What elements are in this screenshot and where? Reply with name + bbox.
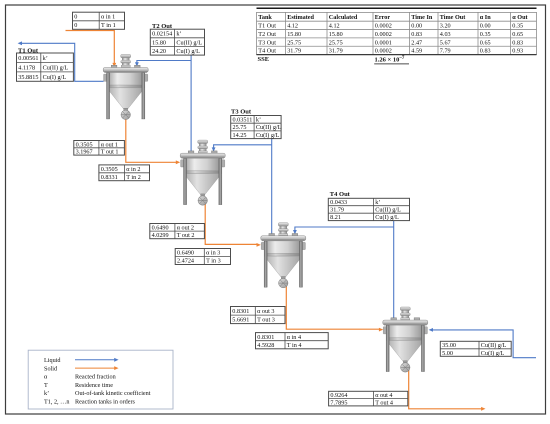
svg-text:T out 4: T out 4 xyxy=(375,399,393,406)
svg-text:0.00561: 0.00561 xyxy=(18,55,38,62)
svg-text:0.83: 0.83 xyxy=(512,39,523,46)
table T1 Out xyxy=(17,53,74,81)
svg-text:k’: k’ xyxy=(44,390,49,397)
results table top rule xyxy=(257,7,537,9)
table alpha/T out 3 xyxy=(231,307,286,324)
wire liquid T1 out to left arrow xyxy=(21,43,103,81)
svg-text:0.6490: 0.6490 xyxy=(152,225,169,232)
table liquid feed conc xyxy=(440,341,511,357)
svg-text:35.00: 35.00 xyxy=(442,342,456,349)
svg-text:35.8815: 35.8815 xyxy=(18,74,38,81)
svg-text:7.79: 7.79 xyxy=(440,48,451,55)
svg-text:0.35: 0.35 xyxy=(480,31,491,38)
svg-text:Solid: Solid xyxy=(44,365,58,372)
svg-text:T4 Out: T4 Out xyxy=(330,191,351,198)
svg-text:T4 Out: T4 Out xyxy=(258,48,276,55)
svg-text:0.3505: 0.3505 xyxy=(101,166,118,173)
svg-text:Cu(I) g/L: Cu(I) g/L xyxy=(375,214,399,221)
svg-text:α in 4: α in 4 xyxy=(287,334,301,341)
svg-text:T out 3: T out 3 xyxy=(257,317,275,324)
svg-text:0.65: 0.65 xyxy=(512,31,523,38)
svg-text:0.6490: 0.6490 xyxy=(177,250,194,257)
legend box xyxy=(28,350,173,409)
svg-text:T1, 2, …n: T1, 2, …n xyxy=(44,399,69,406)
svg-text:T in 3: T in 3 xyxy=(206,258,221,265)
table alpha/T out 1 xyxy=(74,141,125,156)
svg-text:0.02154: 0.02154 xyxy=(152,31,172,38)
tank T3 vessel xyxy=(261,223,306,288)
svg-text:k’: k’ xyxy=(256,117,261,124)
svg-text:Time In: Time In xyxy=(411,14,433,21)
svg-text:0.35: 0.35 xyxy=(512,23,523,30)
svg-text:Cu(II) g/L: Cu(II) g/L xyxy=(43,64,69,71)
wire solid T1 to T2 xyxy=(126,117,177,162)
svg-text:α in 2: α in 2 xyxy=(126,166,140,173)
svg-text:4.0299: 4.0299 xyxy=(152,232,169,239)
svg-text:T out 1: T out 1 xyxy=(101,149,119,156)
svg-text:4.5928: 4.5928 xyxy=(257,342,274,349)
svg-text:Cu(II) g/L: Cu(II) g/L xyxy=(176,39,202,46)
tank T1 vessel xyxy=(103,54,148,119)
svg-text:Residence time: Residence time xyxy=(75,382,113,389)
svg-text:Out-of-tank kinetic coefficien: Out-of-tank kinetic coefficient xyxy=(75,390,151,397)
svg-text:0.93: 0.93 xyxy=(512,48,523,55)
svg-text:k’: k’ xyxy=(176,31,181,38)
svg-text:31.79: 31.79 xyxy=(287,48,301,55)
svg-text:SSE: SSE xyxy=(258,56,270,63)
svg-text:4.12: 4.12 xyxy=(287,23,298,30)
wire solid T4 to outlet xyxy=(409,369,482,409)
table alpha/T in 1 xyxy=(73,12,125,29)
svg-text:4.03: 4.03 xyxy=(440,31,451,38)
svg-text:25.75: 25.75 xyxy=(329,39,343,46)
svg-text:Liquid: Liquid xyxy=(44,357,61,364)
svg-text:α in 3: α in 3 xyxy=(206,250,220,257)
svg-text:k’: k’ xyxy=(43,55,48,62)
svg-text:0.3505: 0.3505 xyxy=(76,141,93,148)
svg-text:0.65: 0.65 xyxy=(480,39,491,46)
svg-text:4.12: 4.12 xyxy=(329,23,340,30)
svg-text:0.8301: 0.8301 xyxy=(257,334,274,341)
svg-text:5.67: 5.67 xyxy=(440,39,451,46)
svg-text:31.79: 31.79 xyxy=(329,48,343,55)
svg-text:Cu(II) g/L: Cu(II) g/L xyxy=(375,207,401,214)
table alpha/T out 4 xyxy=(329,391,408,406)
svg-text:0.83: 0.83 xyxy=(411,31,422,38)
svg-text:T in 4: T in 4 xyxy=(287,342,302,349)
svg-text:Cu(I) g/L: Cu(I) g/L xyxy=(176,48,200,55)
svg-text:8.21: 8.21 xyxy=(330,214,341,221)
svg-text:Cu(II) g/L: Cu(II) g/L xyxy=(481,342,507,349)
svg-text:Error: Error xyxy=(375,14,391,21)
svg-text:α Out: α Out xyxy=(512,14,528,21)
svg-text:T2 Out: T2 Out xyxy=(258,31,276,38)
tank T4 vessel xyxy=(383,307,428,372)
svg-text:4.1178: 4.1178 xyxy=(18,64,35,71)
svg-text:0.0002: 0.0002 xyxy=(375,23,392,30)
wire solid T3 to T4 xyxy=(286,285,379,329)
svg-text:5.6691: 5.6691 xyxy=(232,317,249,324)
table alpha/T out 2 xyxy=(150,224,205,240)
wire liquid T2 out / T2 table leader xyxy=(190,55,192,151)
svg-text:T: T xyxy=(44,382,48,389)
svg-text:α out 3: α out 3 xyxy=(257,308,274,315)
svg-text:15.80: 15.80 xyxy=(329,31,343,38)
svg-text:α out 1: α out 1 xyxy=(101,141,118,148)
wire solid T2 to T3 xyxy=(205,202,257,244)
wire liquid T4 out / T4 table leader xyxy=(393,221,395,319)
svg-text:0.8301: 0.8301 xyxy=(232,308,249,315)
svg-text:Cu(I) g/L: Cu(I) g/L xyxy=(481,350,505,357)
svg-text:24.20: 24.20 xyxy=(152,48,166,55)
svg-text:2.4724: 2.4724 xyxy=(177,258,194,265)
svg-text:T in 2: T in 2 xyxy=(126,174,141,181)
table alpha/T in 4 xyxy=(256,333,329,349)
svg-text:31.79: 31.79 xyxy=(330,207,344,214)
svg-text:14.25: 14.25 xyxy=(233,132,247,139)
table T4 Out xyxy=(328,198,409,221)
table alpha/T in 2 xyxy=(99,165,150,181)
svg-text:25.75: 25.75 xyxy=(287,39,301,46)
svg-text:Reaction tanks in orders: Reaction tanks in orders xyxy=(75,399,136,406)
svg-text:T out 2: T out 2 xyxy=(177,232,195,239)
wire liquid T3 out / T3 table leader xyxy=(271,139,273,234)
svg-text:0.03511: 0.03511 xyxy=(233,117,253,124)
svg-text:0.00: 0.00 xyxy=(411,23,422,30)
svg-text:k’: k’ xyxy=(375,199,380,206)
svg-text:0.0002: 0.0002 xyxy=(375,31,392,38)
svg-text:25.75: 25.75 xyxy=(233,124,247,131)
svg-text:Calculated: Calculated xyxy=(329,14,358,21)
svg-text:0.0002: 0.0002 xyxy=(375,48,392,55)
svg-text:Time Out: Time Out xyxy=(440,14,466,21)
svg-text:0: 0 xyxy=(74,22,77,29)
svg-text:0.83: 0.83 xyxy=(480,48,491,55)
wire liquid feed into T4 xyxy=(432,330,536,358)
svg-text:T3 Out: T3 Out xyxy=(231,109,252,116)
svg-text:α out 2: α out 2 xyxy=(177,225,194,232)
wire solid feed into T1 xyxy=(66,31,115,64)
svg-text:T in 1: T in 1 xyxy=(101,22,116,29)
results table xyxy=(257,12,537,54)
svg-text:Cu(I) g/L: Cu(I) g/L xyxy=(43,74,67,81)
svg-text:0.8331: 0.8331 xyxy=(101,174,118,181)
svg-text:0.0001: 0.0001 xyxy=(375,39,392,46)
svg-text:Tank: Tank xyxy=(258,14,272,21)
svg-text:7.7895: 7.7895 xyxy=(330,399,347,406)
table T2 Out xyxy=(150,29,204,55)
svg-text:15.80: 15.80 xyxy=(287,31,301,38)
svg-text:Estimated: Estimated xyxy=(287,14,314,21)
svg-text:0.9264: 0.9264 xyxy=(330,392,347,399)
svg-text:0.0433: 0.0433 xyxy=(330,199,347,206)
svg-text:4.59: 4.59 xyxy=(411,48,422,55)
table alpha/T in 3 xyxy=(175,249,230,265)
svg-text:0.00: 0.00 xyxy=(480,23,491,30)
svg-text:15.80: 15.80 xyxy=(152,39,166,46)
svg-text:α in 1: α in 1 xyxy=(101,14,115,21)
svg-text:3.20: 3.20 xyxy=(440,23,451,30)
svg-text:5.00: 5.00 xyxy=(442,350,453,357)
svg-text:Reacted fraction: Reacted fraction xyxy=(75,374,116,381)
svg-text:α out 4: α out 4 xyxy=(375,392,392,399)
svg-text:Cu(II) g/L: Cu(II) g/L xyxy=(256,124,282,131)
svg-text:T3 Out: T3 Out xyxy=(258,39,276,46)
svg-text:T1 Out: T1 Out xyxy=(258,23,276,30)
svg-text:2.47: 2.47 xyxy=(411,39,422,46)
svg-text:3.1967: 3.1967 xyxy=(76,149,93,156)
table T3 Out xyxy=(231,116,282,139)
svg-text:0: 0 xyxy=(74,14,77,21)
tank T2 vessel xyxy=(180,140,225,205)
svg-text:Cu(I) g/L: Cu(I) g/L xyxy=(256,132,280,139)
svg-text:α In: α In xyxy=(480,14,491,21)
